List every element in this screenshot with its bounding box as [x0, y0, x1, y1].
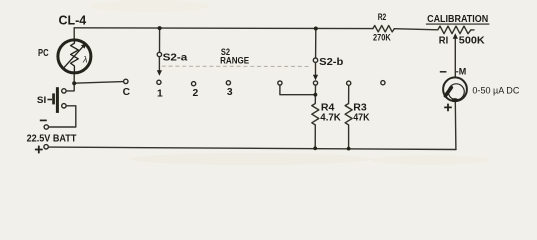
svg-text:CALIBRATION: CALIBRATION: [427, 14, 488, 25]
svg-text:PC: PC: [38, 48, 49, 59]
svg-text:SI: SI: [37, 95, 46, 106]
svg-text:47K: 47K: [353, 113, 370, 124]
svg-text:R2: R2: [378, 12, 387, 23]
svg-text:C: C: [123, 87, 131, 98]
svg-text:270K: 270K: [373, 32, 391, 43]
svg-text:S2-a: S2-a: [163, 52, 188, 63]
svg-text:RI: RI: [439, 36, 449, 47]
svg-text:S2-b: S2-b: [319, 57, 343, 68]
svg-text:0-50 µA DC: 0-50 µA DC: [472, 85, 519, 96]
svg-text:RANGE: RANGE: [220, 56, 249, 67]
svg-text:22.5V BATT: 22.5V BATT: [27, 134, 77, 145]
svg-text:CL-4: CL-4: [59, 13, 87, 28]
svg-text:M: M: [459, 67, 467, 77]
svg-text:2: 2: [193, 88, 199, 99]
svg-text:3: 3: [227, 87, 233, 98]
svg-text:4.7K: 4.7K: [320, 113, 341, 124]
svg-text:1: 1: [157, 88, 163, 99]
svg-text:λ: λ: [82, 55, 87, 65]
svg-text:500K: 500K: [459, 35, 486, 46]
